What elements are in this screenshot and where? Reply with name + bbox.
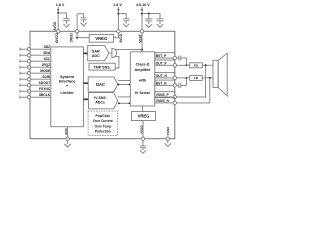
bus System to SAR ADC xyxy=(83,52,87,54)
junction VBAT cap C4 xyxy=(148,13,150,15)
wire IOVDD to cap C1 xyxy=(58,13,66,18)
svg-text:4.5-16 V: 4.5-16 V xyxy=(136,3,150,7)
pin SDOUT xyxy=(20,81,51,87)
svg-text:VREG: VREG xyxy=(138,114,150,119)
pin DREG xyxy=(75,30,78,33)
svg-text:BST_P: BST_P xyxy=(156,54,167,58)
svg-text:SDOUT: SDOUT xyxy=(39,81,51,85)
ground C3 xyxy=(123,24,129,27)
svg-text:VSNS_P: VSNS_P xyxy=(156,93,170,97)
pin box OUT_N xyxy=(155,73,175,78)
ground C4 xyxy=(146,24,152,27)
svg-text:SCL: SCL xyxy=(44,57,51,61)
svg-text:VSNS_N: VSNS_N xyxy=(156,99,170,103)
wire DAC to Class-D upper xyxy=(118,80,130,82)
capacitor C1 xyxy=(63,19,69,24)
svg-text:Class-D: Class-D xyxy=(136,63,150,67)
svg-text:Pop/Click: Pop/Click xyxy=(96,114,111,118)
junction AVDD xyxy=(117,13,119,15)
pin BST_N xyxy=(173,84,176,87)
pin label GND xyxy=(64,127,68,135)
wire VBAT sense to mux xyxy=(115,49,142,51)
protection box Pop/Click Over Current Over Temp xyxy=(88,111,117,135)
svg-text:SDZ: SDZ xyxy=(44,45,51,49)
capacitor C4 xyxy=(145,14,152,25)
pin label AVDD xyxy=(119,33,123,42)
svg-text:1.8 V: 1.8 V xyxy=(113,3,122,7)
wire C7 to OUT_P xyxy=(185,58,187,65)
capacitor C8 (bootstrap BST_N) xyxy=(177,83,187,88)
svg-text:with: with xyxy=(138,79,147,83)
wire DAC to Class-D lower xyxy=(118,84,131,86)
regulator VREG (bottom) xyxy=(132,112,156,121)
junction VBAT xyxy=(141,13,143,15)
pin box BST_P xyxy=(155,53,175,58)
svg-text:FB: FB xyxy=(194,76,199,80)
wire VREG left xyxy=(77,37,89,39)
capacitor C7 (bootstrap BST_P) xyxy=(177,56,187,61)
bus System to DAC xyxy=(83,82,88,84)
pin SDZ xyxy=(20,45,51,51)
wire SAR to mux xyxy=(109,52,112,54)
svg-text:1.8 V: 1.8 V xyxy=(56,3,65,7)
block TMP SNS xyxy=(89,63,115,70)
svg-text:AVDD: AVDD xyxy=(119,33,123,42)
pin label IOVDD xyxy=(55,32,59,43)
svg-text:OUT_N: OUT_N xyxy=(156,74,168,78)
wire System to GND pin xyxy=(67,127,69,137)
wire IV-SNS to Class-D upper xyxy=(118,96,131,98)
wire VBAT internal xyxy=(141,33,143,52)
pin label AREG xyxy=(139,124,143,133)
wire FB1 to speaker xyxy=(202,64,213,66)
speaker LS1 xyxy=(213,53,227,96)
junction VSNS_P tap xyxy=(205,64,207,66)
pin MODE xyxy=(20,69,51,75)
pin AVDD xyxy=(117,30,120,33)
svg-text:GND: GND xyxy=(64,127,68,135)
svg-text:VREG: VREG xyxy=(95,36,107,41)
pin VBAT xyxy=(140,30,143,33)
wire DREG internal xyxy=(76,33,78,38)
amplifier Class-D xyxy=(130,52,155,106)
ground C5 xyxy=(157,24,163,27)
wire C8 to OUT_N xyxy=(185,78,187,86)
ground C6 xyxy=(140,150,146,153)
wire Class-D to VREG2 xyxy=(142,106,144,112)
regulator VREG (top) xyxy=(89,34,113,42)
pin GND xyxy=(66,137,69,140)
pin AREG xyxy=(141,137,144,140)
pin SBCLK xyxy=(20,93,51,99)
ground GND xyxy=(64,140,70,147)
wire FB2 to speaker xyxy=(202,77,213,79)
pin FSYNC xyxy=(20,87,51,93)
ADC IV-SNS xyxy=(89,93,118,109)
wire IOVDD vertical xyxy=(57,12,59,30)
capacitor C6 (AREG) xyxy=(140,140,146,150)
wire VREG2 to AREG pin xyxy=(142,121,144,137)
pin IOVDD xyxy=(57,30,60,33)
svg-text:TMP SNS: TMP SNS xyxy=(93,65,110,69)
pin label DREG xyxy=(70,33,74,43)
wire DREG vertical xyxy=(76,14,78,30)
pin box VSNS_N xyxy=(155,98,175,103)
svg-text:DREG: DREG xyxy=(70,33,74,43)
svg-text:+: + xyxy=(66,83,69,88)
pin label VBAT xyxy=(139,34,143,42)
svg-text:SBCLK: SBCLK xyxy=(39,93,51,97)
wire AVDD vertical xyxy=(117,12,119,30)
pin box VSNS_P xyxy=(155,92,175,97)
junction DREG-VREG xyxy=(76,37,78,39)
mux ADC input xyxy=(112,48,117,57)
capacitor C3 xyxy=(123,19,129,24)
pin box BST_N xyxy=(155,80,175,85)
svg-text:PGND: PGND xyxy=(166,126,170,136)
wire VSNS_N sense xyxy=(177,78,210,103)
svg-text:SDIN: SDIN xyxy=(42,75,50,79)
svg-text:DAC: DAC xyxy=(96,82,105,87)
wire VBAT to caps xyxy=(142,14,160,19)
junction IOVDD xyxy=(57,12,59,14)
ground C1 xyxy=(63,24,69,27)
svg-text:OUT_P: OUT_P xyxy=(156,61,168,65)
svg-text:IOVDD: IOVDD xyxy=(55,32,59,43)
supply label 1.8 V (AVDD) xyxy=(113,3,122,7)
chip boundary U1 xyxy=(30,31,175,138)
wire mux to TMP SNS xyxy=(115,57,119,68)
wire VBAT vertical xyxy=(141,12,143,30)
wire OUT_P to FB1 xyxy=(177,64,190,66)
net label AVDD xyxy=(53,21,57,30)
svg-text:Protection: Protection xyxy=(95,129,111,133)
arrow AVDD supply xyxy=(117,7,120,12)
svg-text:FSYNC: FSYNC xyxy=(39,87,51,91)
wire VSNS_P sense xyxy=(177,65,206,97)
ferrite bead FB1 xyxy=(190,63,203,68)
bus System to IV-SNS ADC xyxy=(83,98,88,100)
ADC SAR xyxy=(88,46,109,61)
supply label 1.8 V (IOVDD) xyxy=(56,3,65,7)
wire IV-SNS to Class-D lower xyxy=(118,102,131,104)
capacitor C2 xyxy=(81,18,87,23)
svg-text:AVDD: AVDD xyxy=(53,21,57,30)
wire AVDD to cap C3 xyxy=(118,14,126,19)
arrow IOVDD supply xyxy=(57,7,60,12)
svg-text:Over Current: Over Current xyxy=(93,119,114,123)
svg-text:BST_N: BST_N xyxy=(156,81,167,85)
ground PGND xyxy=(165,140,171,146)
DAC xyxy=(88,77,118,92)
pin OUT_P xyxy=(173,64,176,67)
wire VREG right to AVDD xyxy=(114,33,119,38)
wire OUT_N to FB2 xyxy=(177,77,190,79)
junction VSNS_N tap xyxy=(209,77,211,79)
pin SDIN xyxy=(20,75,51,81)
svg-text:FB: FB xyxy=(194,63,199,67)
pin IRQZ xyxy=(20,63,51,69)
svg-text:IRQZ: IRQZ xyxy=(42,63,50,67)
svg-text:SDA: SDA xyxy=(43,51,51,55)
capacitor C5 xyxy=(157,19,164,24)
pin label PGND xyxy=(166,126,170,136)
wire DREG to cap C2 xyxy=(77,14,84,18)
svg-text:Over Temp: Over Temp xyxy=(95,124,111,128)
svg-text:AREG: AREG xyxy=(139,124,143,133)
junction VBAT sense xyxy=(141,49,143,51)
svg-text:MODE: MODE xyxy=(40,69,51,73)
pin BST_P xyxy=(173,56,176,59)
pin OUT_N xyxy=(173,76,176,79)
pin VSNS_P xyxy=(173,95,176,98)
ferrite bead FB2 xyxy=(190,75,203,80)
svg-text:Amplifier: Amplifier xyxy=(135,68,152,72)
svg-text:Limiter: Limiter xyxy=(60,90,74,95)
junction C7-OUT_P xyxy=(185,64,187,66)
svg-text:ADCs: ADCs xyxy=(95,100,105,104)
pin VSNS_N xyxy=(173,101,176,104)
supply label 4.5-16 V (VBAT) xyxy=(136,3,150,7)
svg-text:IV Sense: IV Sense xyxy=(135,91,150,95)
arrow VBAT supply xyxy=(141,7,144,12)
pin SDA xyxy=(20,51,51,57)
ground C2 xyxy=(81,23,87,26)
junction C8-OUT_N xyxy=(185,77,187,79)
pin box OUT_P xyxy=(155,60,175,65)
pin PGND xyxy=(166,137,169,140)
pin SCL xyxy=(20,57,51,63)
block System Interface + Limiter xyxy=(51,47,84,127)
svg-text:ADC: ADC xyxy=(92,54,100,58)
